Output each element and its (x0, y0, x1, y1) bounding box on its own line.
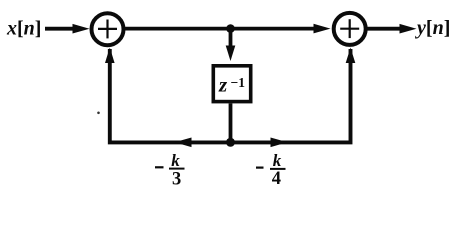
value label -k/3 coefficient (155, 151, 185, 190)
op-amp adder U1 (summing node, left) (92, 13, 124, 45)
wire up arrowhead into U1 (105, 48, 115, 64)
wire right feedback arrowhead (pointing right) (271, 138, 288, 148)
delay block z^-1 (213, 66, 250, 102)
wire from delay to bottom junction (229, 104, 233, 143)
wire input arrow into adder U1 (45, 27, 77, 31)
wire output arrow to y[n] (368, 27, 405, 31)
wire left feedback arrowhead (pointing left) (175, 138, 192, 148)
svg-text:4: 4 (272, 169, 281, 189)
svg-text:−1: −1 (231, 75, 246, 90)
svg-text:x[n]: x[n] (6, 18, 41, 40)
node top junction (226, 24, 235, 33)
stray speck (97, 112, 100, 115)
svg-text:3: 3 (172, 170, 181, 190)
node bottom junction (226, 138, 235, 147)
op-amp adder U2 (summing node, right) (334, 13, 366, 45)
wire down arrow into delay (229, 29, 233, 50)
wire top rail from U1 to U2 (125, 27, 316, 31)
svg-text:k: k (273, 151, 282, 170)
value label -k/4 coefficient (256, 151, 286, 189)
svg-text:y[n]: y[n] (415, 17, 450, 39)
svg-text:k: k (171, 151, 180, 170)
wire up arrowhead into U2 (346, 48, 356, 64)
svg-text:z: z (218, 73, 228, 97)
wire bottom feedback rail (110, 49, 351, 142)
